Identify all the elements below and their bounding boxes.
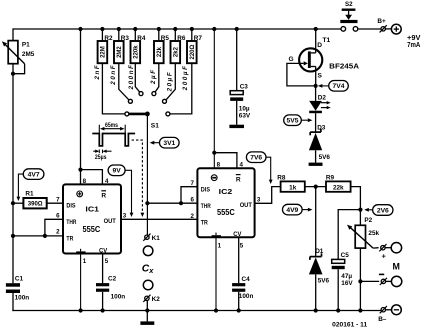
- wire IC1 TR to node A: [13, 235, 63, 237]
- wire D1 to rail: [315, 274, 317, 310]
- svg-text:63V: 63V: [239, 113, 251, 120]
- svg-text:555C: 555C: [217, 207, 235, 217]
- wire R8R9 to D1: [315, 187, 317, 257]
- svg-text:R2: R2: [104, 35, 113, 42]
- svg-text:R9: R9: [326, 174, 335, 181]
- svg-text:P2: P2: [364, 217, 372, 224]
- wire T1 source to D2: [315, 86, 317, 101]
- svg-text:IC2: IC2: [219, 187, 233, 196]
- svg-text:K1: K1: [152, 235, 161, 242]
- junction rail IC1 pin1: [79, 308, 83, 312]
- svg-text:C5: C5: [341, 252, 350, 259]
- wire R6 to S1 contact: [166, 63, 175, 100]
- svg-text:555C: 555C: [83, 224, 101, 234]
- wire C3 bottom: [236, 101, 238, 125]
- junction top rail R3: [117, 27, 121, 31]
- svg-text:R6: R6: [177, 35, 186, 42]
- push button S2: [340, 1, 358, 31]
- svg-text:22k: 22k: [157, 46, 163, 57]
- resistor R4: [131, 29, 146, 63]
- wire M-: [360, 280, 379, 282]
- wire THR line: [147, 202, 197, 204]
- junction top rail R2: [100, 27, 104, 31]
- node label 5V5: [284, 115, 313, 126]
- svg-text:25µs: 25µs: [95, 155, 107, 161]
- svg-text:x: x: [148, 266, 154, 275]
- svg-text:CV: CV: [99, 247, 108, 254]
- resistor R5: [154, 29, 169, 63]
- resistor R1: [23, 190, 46, 208]
- svg-text:65ms: 65ms: [105, 123, 119, 129]
- svg-text:10µ: 10µ: [239, 105, 250, 112]
- terminal K1: [143, 234, 160, 242]
- svg-text:25k: 25k: [368, 230, 379, 237]
- capacitor C3: [230, 84, 251, 120]
- svg-text:200nF: 200nF: [128, 64, 135, 91]
- wire IC2 pin5: [238, 237, 240, 283]
- svg-text:R4: R4: [137, 35, 146, 42]
- junction rail C2: [101, 308, 105, 312]
- svg-text:8: 8: [83, 178, 87, 185]
- wire D2 to D3: [315, 113, 317, 132]
- timer IC2 555C: [191, 162, 261, 250]
- svg-text:100n: 100n: [15, 295, 30, 302]
- junction DIS branch: [179, 201, 183, 205]
- svg-text:2: 2: [191, 213, 195, 220]
- wire R1 to IC1 DIS: [47, 202, 63, 204]
- switch S1: [125, 92, 170, 130]
- svg-text:100n: 100n: [239, 293, 254, 300]
- wire R7 to S1 contact: [170, 63, 192, 114]
- svg-text:C2: C2: [108, 275, 117, 282]
- potentiometer P1: [0, 40, 34, 74]
- svg-text:TR: TR: [201, 219, 208, 226]
- label drawing number: [332, 323, 368, 329]
- wire IC1 pin4: [81, 170, 103, 185]
- node label 4V9: [283, 204, 313, 215]
- svg-text:OUT: OUT: [104, 218, 116, 225]
- svg-text:R3: R3: [121, 35, 130, 42]
- wire IC2 pin4: [214, 153, 237, 169]
- svg-text:THR: THR: [201, 203, 211, 210]
- junction top rail C3: [235, 27, 239, 31]
- label +9V 7mA: [407, 33, 421, 49]
- junction rail C4: [237, 308, 241, 312]
- svg-text:5V5: 5V5: [287, 118, 299, 125]
- svg-text:S2: S2: [345, 1, 353, 8]
- ground D3: [309, 163, 323, 166]
- svg-text:D2: D2: [318, 95, 327, 102]
- wire D3 to ground: [315, 150, 317, 162]
- svg-text:R: R: [236, 176, 241, 183]
- svg-text:B+: B+: [377, 18, 386, 25]
- junction THR-TR: [43, 234, 47, 238]
- node label 9V: [108, 165, 133, 217]
- wire IC2 pin1 to rail: [215, 237, 217, 310]
- label 2nF range: [94, 64, 101, 81]
- svg-text:220Ω: 220Ω: [190, 45, 196, 60]
- svg-text:5: 5: [105, 258, 109, 265]
- wire K2 to rail: [146, 300, 148, 310]
- svg-text:4: 4: [105, 178, 109, 185]
- zener diode D3: [309, 125, 331, 162]
- svg-text:5: 5: [240, 242, 244, 249]
- junction top rail T1 drain: [314, 27, 318, 31]
- svg-text:S1: S1: [151, 122, 159, 129]
- svg-text:220k: 220k: [133, 45, 139, 59]
- svg-text:6: 6: [56, 213, 60, 220]
- svg-text:2nF: 2nF: [94, 64, 101, 81]
- terminal M- plug: [379, 274, 387, 285]
- svg-text:DIS: DIS: [66, 203, 76, 210]
- svg-text:TR: TR: [66, 235, 73, 242]
- svg-text:4V7: 4V7: [28, 172, 40, 179]
- wire P1 bottom: [12, 64, 14, 284]
- svg-text:20µF: 20µF: [167, 71, 174, 93]
- resistor R2: [98, 29, 113, 63]
- node label 7V4: [318, 81, 349, 92]
- timer IC1 555C: [56, 178, 127, 265]
- capacitor C2: [96, 275, 125, 300]
- transistor T1 BF245A: [288, 37, 359, 79]
- svg-text:200µF: 200µF: [182, 65, 189, 92]
- wire IC1 pin5: [102, 254, 104, 284]
- wire C4 to rail: [238, 292, 240, 311]
- label M: [392, 262, 399, 272]
- terminal B- plug: [378, 306, 387, 323]
- junction rail C5: [336, 308, 340, 312]
- wire R9 to P2: [351, 187, 361, 226]
- wire source T1: [311, 67, 316, 86]
- svg-text:390Ω: 390Ω: [28, 202, 43, 208]
- wire IC1 THR to TR: [45, 219, 63, 236]
- svg-text:OUT: OUT: [240, 202, 252, 209]
- wire left rail top: [12, 28, 14, 40]
- svg-text:1: 1: [83, 258, 87, 265]
- junction top rail IC1 supply: [78, 27, 82, 31]
- LED D2: [309, 95, 331, 114]
- svg-text:M: M: [392, 262, 399, 272]
- svg-text:K2: K2: [152, 296, 161, 303]
- svg-text:CV: CV: [233, 231, 242, 238]
- wire C3 top: [236, 29, 238, 91]
- svg-text:2M2: 2M2: [117, 46, 123, 58]
- svg-text:22M: 22M: [101, 46, 107, 58]
- wire drain T1: [311, 29, 316, 53]
- svg-text:7: 7: [56, 196, 60, 203]
- svg-text:R7: R7: [194, 35, 203, 42]
- potentiometer P2: [346, 217, 380, 248]
- svg-text:D1: D1: [315, 248, 324, 255]
- svg-text:DIS: DIS: [201, 186, 211, 193]
- junction top rail R4: [133, 27, 137, 31]
- wire S1 pole to THR node: [146, 114, 148, 203]
- svg-text:2µF: 2µF: [150, 68, 157, 85]
- svg-text:5V6: 5V6: [319, 154, 331, 161]
- svg-text:3: 3: [257, 196, 261, 203]
- wire R3 to S1 contact: [119, 63, 129, 100]
- svg-text:G: G: [288, 56, 293, 63]
- ground K2: [140, 311, 154, 325]
- wire gate T1: [287, 63, 314, 86]
- label 200&#181;F range: [182, 65, 189, 92]
- junction 2V6 node: [358, 208, 362, 212]
- svg-text:4V9: 4V9: [286, 207, 298, 214]
- svg-text:+: +: [382, 252, 386, 261]
- battery minus terminal: [386, 305, 402, 315]
- svg-text:3: 3: [123, 213, 127, 220]
- svg-text:D3: D3: [317, 125, 326, 132]
- socket Cx top: [143, 246, 153, 256]
- label 200nF range: [128, 64, 135, 91]
- wire C2 to rail: [102, 292, 104, 311]
- wire ground bottom rail: [12, 310, 381, 312]
- waveform pulse diagram: [92, 123, 135, 161]
- resistor R3: [114, 29, 129, 63]
- junction rail P2: [358, 308, 362, 312]
- terminal M+ socket: [385, 243, 401, 253]
- svg-text:THR: THR: [66, 219, 76, 226]
- svg-text:BF245A: BF245A: [329, 62, 359, 71]
- wire 2V6 node to C5: [338, 210, 360, 260]
- wire IC2 DIS branch: [181, 187, 197, 204]
- junction S1 pole THR: [145, 201, 149, 205]
- label Cx: [142, 263, 155, 275]
- svg-text:100n: 100n: [111, 294, 126, 301]
- label 20&#181;F range: [167, 71, 174, 93]
- svg-text:R8: R8: [277, 174, 286, 181]
- resistor R7: [187, 29, 202, 63]
- junction top rail R6: [173, 27, 177, 31]
- wire IC2 OUT: [255, 187, 281, 204]
- svg-text:7: 7: [191, 180, 195, 187]
- svg-text:2V6: 2V6: [377, 207, 389, 214]
- battery plus terminal: [385, 24, 401, 34]
- junction rail IC2 pin1: [214, 308, 218, 312]
- terminal M+ plug: [373, 244, 386, 261]
- svg-text:C4: C4: [242, 276, 251, 283]
- wire THR node to K1: [146, 203, 148, 235]
- wire +9V top rail: [13, 28, 381, 30]
- svg-text:R: R: [101, 193, 106, 200]
- wire C5 to rail: [337, 269, 339, 310]
- resistor R9: [326, 174, 351, 191]
- wire IC1 pin8 supply: [80, 29, 82, 184]
- svg-text:C3: C3: [240, 84, 249, 91]
- node label 4V7: [17, 169, 44, 201]
- node label 3V1: [150, 137, 179, 148]
- svg-text:7mA: 7mA: [407, 40, 421, 49]
- wire R4 to S1 contact: [135, 63, 139, 92]
- svg-text:2: 2: [56, 229, 60, 236]
- junction rail K2: [145, 308, 149, 312]
- svg-text:R5: R5: [161, 35, 170, 42]
- wire node A to R1: [13, 202, 23, 204]
- wire IC2 pin8 supply: [213, 29, 215, 168]
- svg-text:1k: 1k: [289, 184, 297, 191]
- wire IC1 pin1 to rail: [80, 254, 82, 311]
- capacitor C1: [6, 275, 29, 301]
- svg-text:B–: B–: [378, 316, 387, 323]
- junction top rail R7: [190, 27, 194, 31]
- wire R5 to S1 contact: [155, 63, 159, 92]
- svg-text:16V: 16V: [341, 280, 353, 287]
- svg-text:IC1: IC1: [85, 205, 99, 214]
- svg-text:R1: R1: [25, 190, 34, 197]
- svg-text:T1: T1: [323, 37, 331, 44]
- terminal B+ plug: [377, 18, 386, 32]
- svg-text:C1: C1: [15, 275, 24, 282]
- wire C1 to ground rail: [12, 293, 14, 311]
- junction node A TR: [11, 234, 15, 238]
- svg-text:22k: 22k: [333, 184, 344, 191]
- junction R8 R9 D1: [314, 185, 318, 189]
- svg-text:5V6: 5V6: [318, 278, 330, 285]
- capacitor C5: [332, 252, 354, 287]
- junction node A R1: [11, 201, 15, 205]
- socket Cx bottom: [143, 280, 153, 290]
- svg-text:2M5: 2M5: [22, 51, 35, 58]
- junction P1 wiper: [11, 72, 15, 76]
- junction IC2 supply: [212, 151, 216, 155]
- svg-text:8: 8: [217, 162, 221, 169]
- resistor R8: [277, 174, 305, 191]
- svg-text:1: 1: [218, 242, 222, 249]
- svg-text:4: 4: [240, 162, 244, 169]
- label 2&#181;F range: [150, 68, 157, 85]
- label 20nF range: [110, 64, 117, 86]
- svg-text:P1: P1: [22, 41, 30, 48]
- capacitor C4: [232, 276, 253, 300]
- node label 7V6: [246, 152, 272, 184]
- svg-text:S: S: [318, 73, 323, 80]
- svg-text:2k2: 2k2: [173, 46, 179, 57]
- junction M- branch: [358, 279, 362, 283]
- wire R8 to R9: [305, 186, 326, 188]
- svg-text:20nF: 20nF: [110, 64, 117, 86]
- junction rail D1: [314, 308, 318, 312]
- svg-text:7V4: 7V4: [333, 83, 345, 90]
- svg-text:020161 - 11: 020161 - 11: [332, 323, 368, 329]
- terminal K2: [143, 295, 160, 303]
- svg-text:3V1: 3V1: [163, 140, 175, 147]
- node label 2V6: [364, 205, 393, 216]
- junction top rail IC2 supply: [212, 27, 216, 31]
- junction top rail R5: [157, 27, 161, 31]
- svg-text:9V: 9V: [113, 168, 122, 175]
- zener diode D1: [309, 248, 330, 285]
- svg-text:6: 6: [191, 196, 195, 203]
- wire R2 to S1 contact: [102, 63, 124, 114]
- junction gate-source 7V4 node: [314, 84, 318, 88]
- dashed wire waveform to OUT line: [132, 140, 145, 217]
- wire IC1 OUT to IC2 TR: [121, 218, 197, 220]
- resistor R6: [171, 29, 186, 63]
- junction IC1 supply: [78, 168, 82, 172]
- ground C3: [229, 125, 244, 128]
- svg-text:7V6: 7V6: [250, 155, 262, 162]
- wire P2 bottom to rail: [359, 248, 361, 310]
- terminal M- socket: [386, 276, 402, 286]
